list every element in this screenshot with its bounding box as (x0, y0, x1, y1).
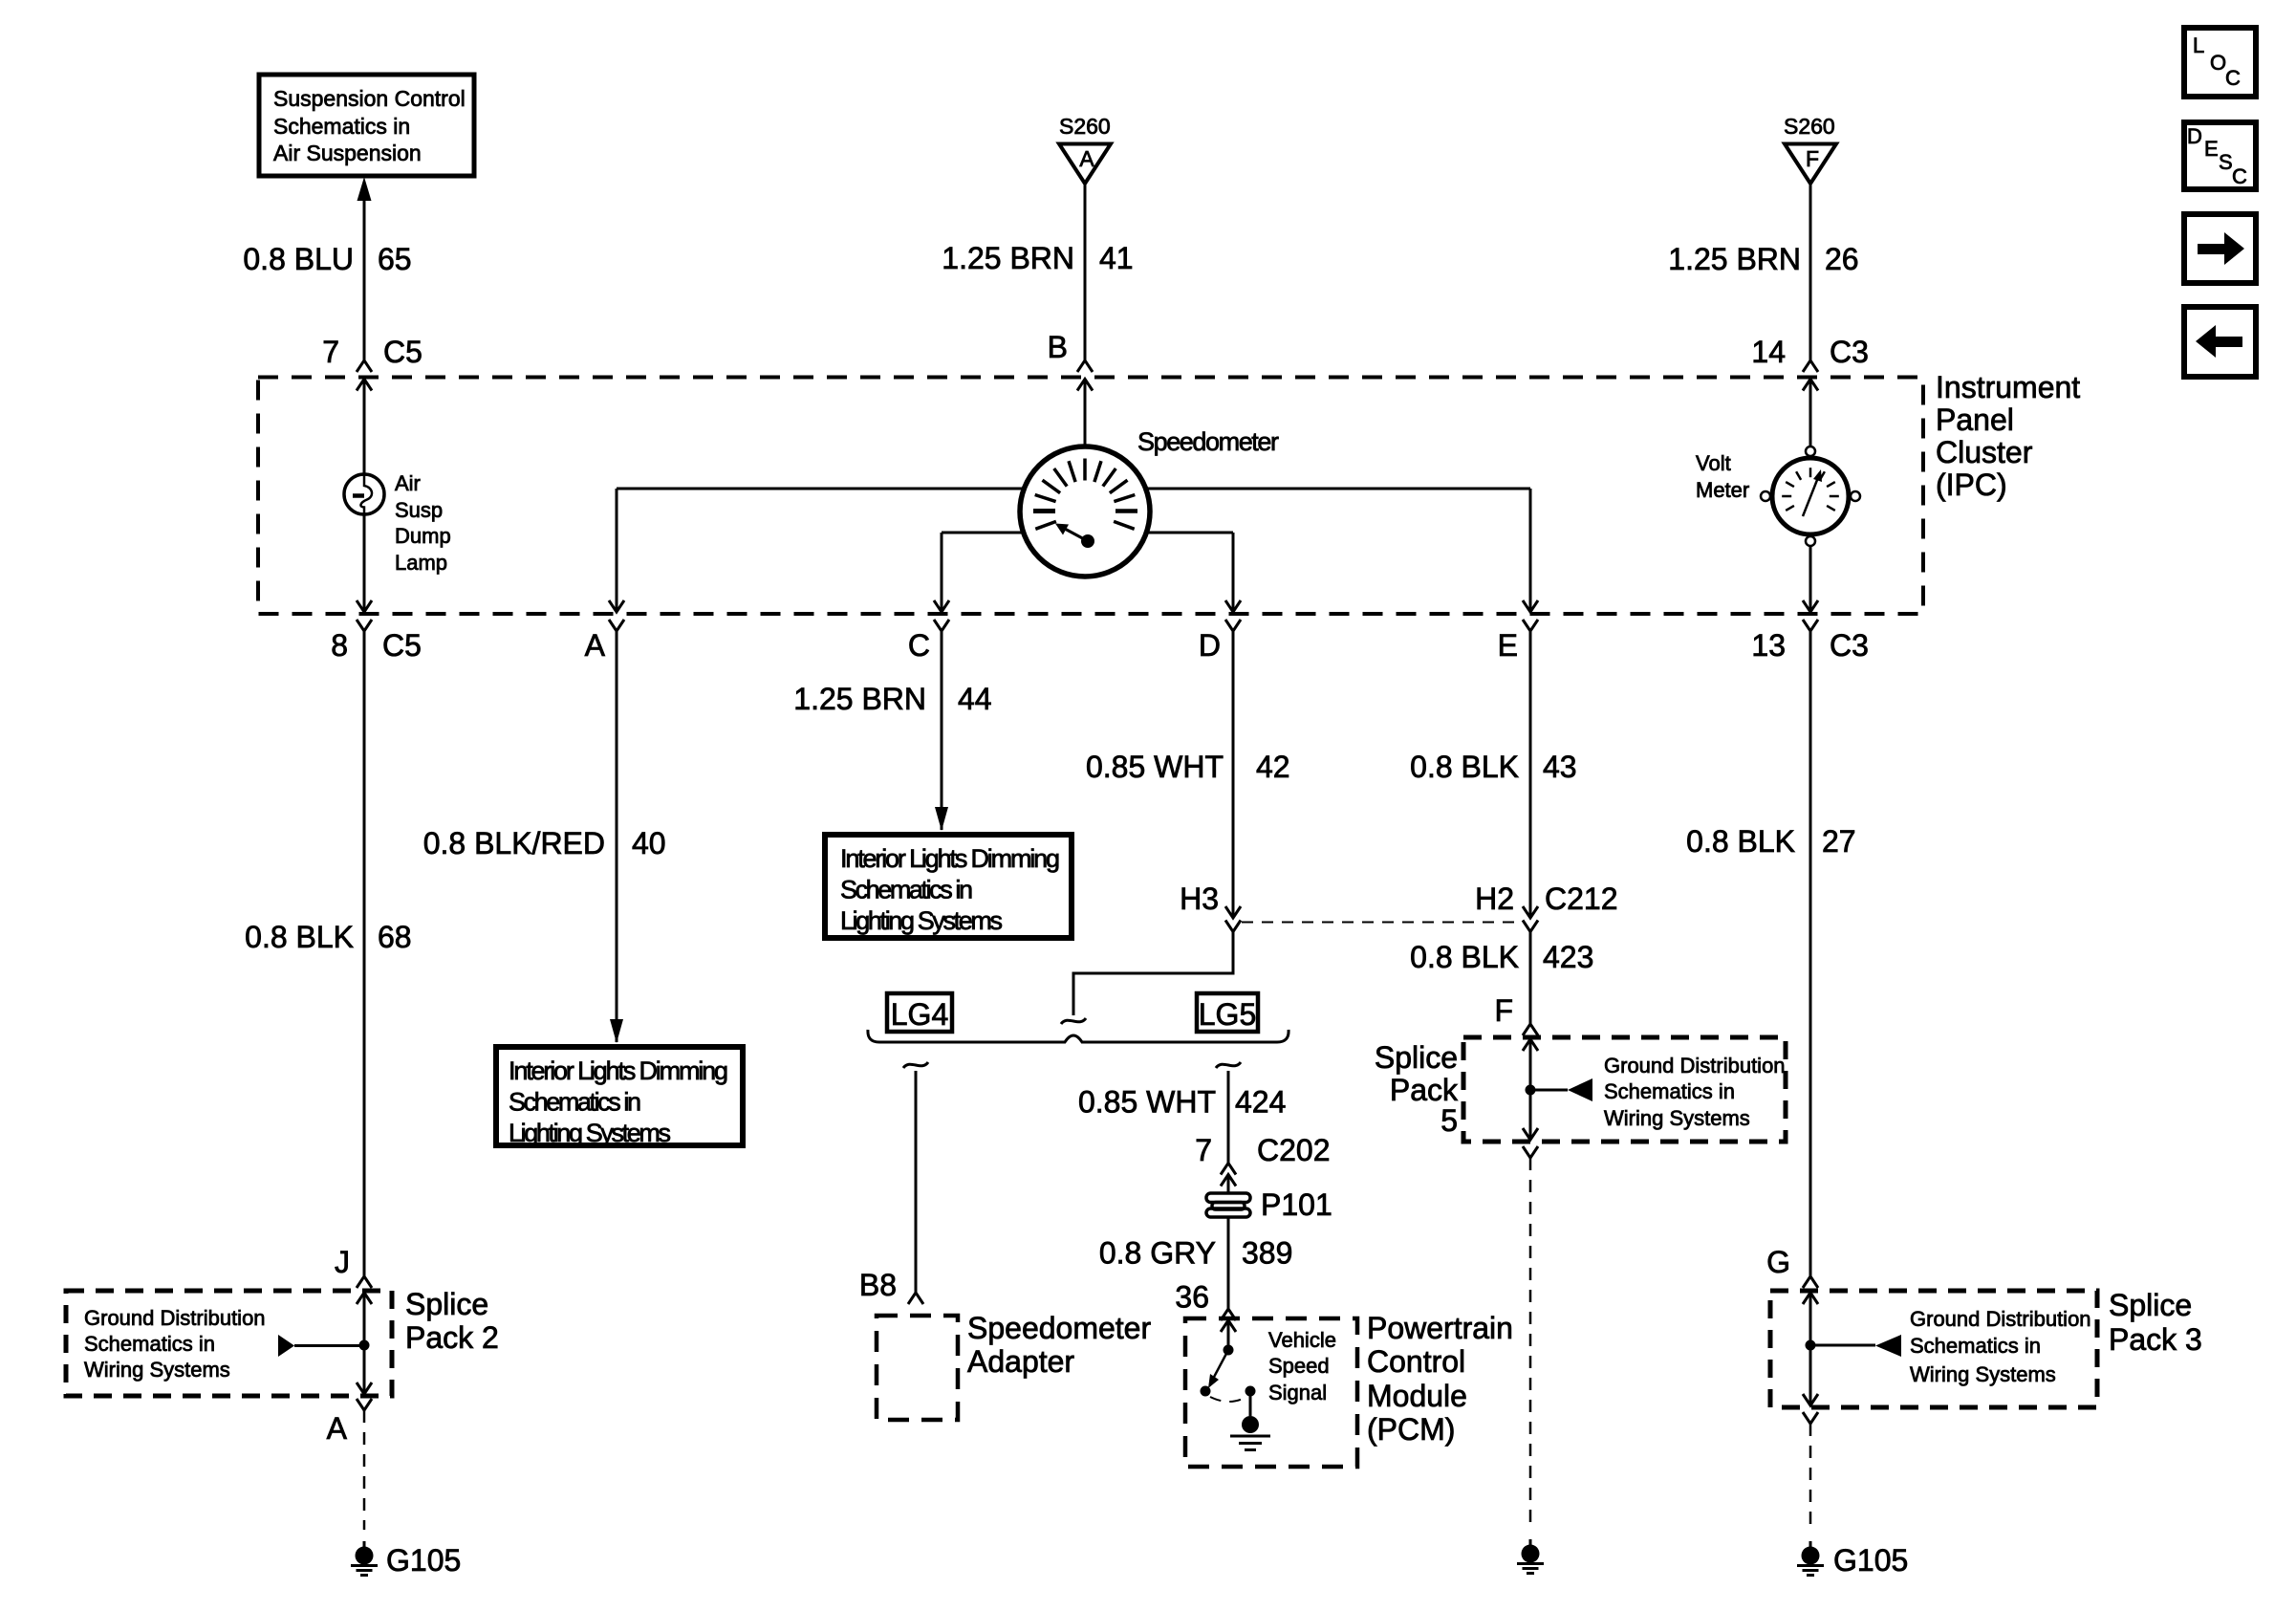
svg-text:Wiring Systems: Wiring Systems (84, 1358, 230, 1382)
svg-text:C5: C5 (383, 335, 422, 369)
svg-text:42: 42 (1256, 750, 1290, 784)
svg-text:13: 13 (1751, 628, 1786, 663)
svg-text:Lighting Systems: Lighting Systems (509, 1119, 671, 1147)
svg-text:Schematics in: Schematics in (509, 1088, 641, 1117)
svg-text:Dump: Dump (395, 524, 451, 548)
svg-text:LG4: LG4 (891, 997, 948, 1032)
svg-text:C3: C3 (1830, 335, 1869, 369)
svg-text:Schematics in: Schematics in (1604, 1079, 1735, 1103)
svg-text:H2: H2 (1475, 882, 1514, 916)
svg-text:G105: G105 (386, 1543, 461, 1578)
svg-text:7: 7 (1195, 1133, 1212, 1167)
svg-text:Susp: Susp (395, 498, 443, 522)
svg-text:(PCM): (PCM) (1367, 1412, 1455, 1447)
svg-text:0.8 BLU: 0.8 BLU (243, 242, 354, 276)
svg-text:C5: C5 (382, 628, 422, 663)
svg-text:A: A (585, 628, 606, 663)
svg-text:Speedometer: Speedometer (1137, 427, 1279, 456)
svg-text:Signal: Signal (1268, 1381, 1327, 1404)
svg-text:B8: B8 (859, 1268, 897, 1302)
svg-text:Suspension Control: Suspension Control (273, 86, 466, 111)
svg-text:27: 27 (1822, 824, 1856, 859)
svg-text:Powertrain: Powertrain (1367, 1311, 1513, 1345)
svg-text:Interior Lights Dimming: Interior Lights Dimming (509, 1056, 728, 1085)
svg-text:Splice: Splice (405, 1287, 488, 1321)
svg-text:Schematics in: Schematics in (1910, 1334, 2041, 1358)
svg-text:7: 7 (322, 335, 339, 369)
svg-text:1.25 BRN: 1.25 BRN (942, 241, 1074, 275)
svg-text:Speed: Speed (1268, 1354, 1330, 1378)
svg-text:Vehicle: Vehicle (1268, 1328, 1336, 1352)
svg-text:389: 389 (1242, 1236, 1292, 1271)
svg-text:Pack 2: Pack 2 (405, 1320, 499, 1355)
svg-text:0.8 BLK: 0.8 BLK (1410, 940, 1519, 974)
svg-text:C212: C212 (1545, 882, 1618, 916)
svg-text:Ground Distribution: Ground Distribution (1910, 1307, 2091, 1331)
svg-text:LG5: LG5 (1199, 997, 1256, 1032)
svg-text:S260: S260 (1059, 114, 1111, 139)
svg-text:Splice: Splice (2109, 1288, 2192, 1322)
svg-text:J: J (335, 1245, 350, 1279)
svg-text:Speedometer: Speedometer (967, 1311, 1151, 1345)
svg-text:0.8 BLK: 0.8 BLK (1410, 750, 1519, 784)
svg-text:14: 14 (1751, 335, 1786, 369)
svg-text:B: B (1048, 330, 1068, 364)
svg-text:0.8 BLK: 0.8 BLK (1686, 824, 1795, 859)
svg-text:Schematics in: Schematics in (273, 114, 410, 139)
svg-text:Interior Lights Dimming: Interior Lights Dimming (840, 844, 1060, 873)
svg-text:Splice: Splice (1375, 1040, 1458, 1075)
svg-text:0.85 WHT: 0.85 WHT (1078, 1085, 1216, 1120)
svg-text:Module: Module (1367, 1379, 1467, 1413)
svg-text:A: A (1079, 146, 1094, 171)
svg-text:D: D (1199, 628, 1221, 663)
svg-text:Wiring Systems: Wiring Systems (1910, 1362, 2056, 1386)
svg-text:Control: Control (1367, 1344, 1465, 1379)
svg-text:G: G (1766, 1245, 1790, 1279)
svg-text:P101: P101 (1261, 1187, 1332, 1222)
svg-text:Air: Air (395, 471, 421, 495)
svg-text:S: S (2219, 150, 2233, 174)
svg-text:26: 26 (1825, 242, 1859, 276)
svg-text:Panel: Panel (1936, 403, 2014, 437)
svg-text:Schematics in: Schematics in (84, 1332, 215, 1356)
svg-text:H3: H3 (1180, 882, 1219, 916)
svg-text:C202: C202 (1257, 1133, 1331, 1167)
svg-text:A: A (327, 1411, 348, 1446)
svg-text:C: C (2225, 66, 2241, 90)
svg-text:O: O (2210, 51, 2226, 75)
svg-text:F: F (1806, 146, 1819, 171)
svg-text:1.25 BRN: 1.25 BRN (793, 682, 926, 716)
svg-text:Air Suspension: Air Suspension (273, 141, 422, 165)
svg-text:41: 41 (1099, 241, 1134, 275)
svg-text:Adapter: Adapter (967, 1344, 1074, 1379)
svg-text:1.25 BRN: 1.25 BRN (1668, 242, 1801, 276)
svg-text:0.8 BLK: 0.8 BLK (245, 920, 354, 954)
svg-text:43: 43 (1543, 750, 1577, 784)
svg-text:Schematics in: Schematics in (840, 876, 973, 904)
svg-text:Volt: Volt (1696, 451, 1731, 475)
svg-text:C: C (2232, 164, 2247, 188)
svg-text:D: D (2187, 124, 2202, 148)
svg-text:65: 65 (378, 242, 412, 276)
svg-text:44: 44 (958, 682, 992, 716)
svg-text:8: 8 (331, 628, 348, 663)
svg-text:Ground Distribution: Ground Distribution (1604, 1054, 1786, 1078)
svg-text:Wiring Systems: Wiring Systems (1604, 1106, 1750, 1130)
svg-text:(IPC): (IPC) (1936, 468, 2007, 502)
svg-text:E: E (2204, 137, 2219, 161)
svg-text:36: 36 (1175, 1280, 1209, 1315)
svg-text:Pack 3: Pack 3 (2109, 1322, 2202, 1357)
svg-text:423: 423 (1543, 940, 1593, 974)
svg-text:0.85 WHT: 0.85 WHT (1086, 750, 1224, 784)
svg-text:S260: S260 (1784, 114, 1835, 139)
svg-text:68: 68 (378, 920, 412, 954)
svg-text:L: L (2193, 33, 2204, 57)
svg-text:Pack: Pack (1390, 1073, 1459, 1107)
svg-text:Cluster: Cluster (1936, 435, 2033, 469)
svg-text:C: C (908, 628, 930, 663)
svg-text:Meter: Meter (1696, 478, 1749, 502)
svg-text:0.8 GRY: 0.8 GRY (1099, 1236, 1216, 1271)
svg-text:E: E (1498, 628, 1518, 663)
svg-text:G105: G105 (1833, 1543, 1908, 1578)
svg-text:Lighting Systems: Lighting Systems (840, 906, 1003, 935)
svg-text:424: 424 (1235, 1085, 1286, 1120)
svg-text:Instrument: Instrument (1936, 370, 2080, 404)
svg-text:40: 40 (632, 826, 666, 860)
svg-text:5: 5 (1440, 1103, 1458, 1138)
svg-text:Lamp: Lamp (395, 551, 447, 575)
svg-text:F: F (1494, 993, 1513, 1028)
svg-text:Ground Distribution: Ground Distribution (84, 1306, 266, 1330)
svg-text:0.8 BLK/RED: 0.8 BLK/RED (423, 826, 605, 860)
svg-text:C3: C3 (1830, 628, 1869, 663)
